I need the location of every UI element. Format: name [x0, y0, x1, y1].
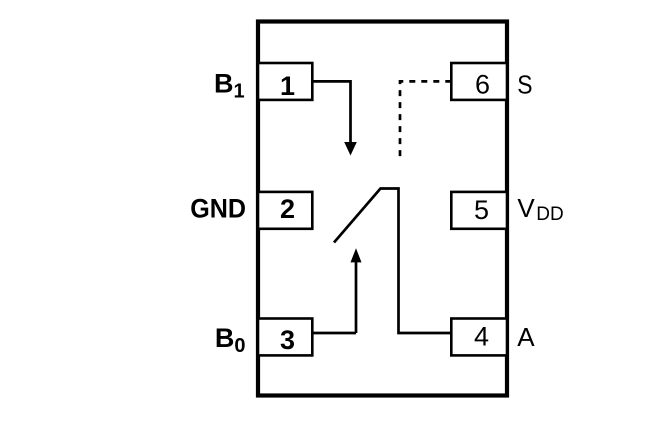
- svg-text:4: 4: [474, 322, 489, 352]
- svg-text:2: 2: [280, 194, 295, 224]
- arrow shaft up (B0 throw): [355, 262, 358, 333]
- svg-text:3: 3: [280, 325, 295, 355]
- svg-text:6: 6: [475, 70, 490, 100]
- svg-text:GND: GND: [190, 193, 246, 224]
- svg-text:B1: B1: [214, 69, 245, 103]
- arrowhead up (B0 throw): [351, 248, 362, 262]
- IC package body: [258, 22, 507, 396]
- svg-text:B0: B0: [215, 323, 246, 357]
- arrowhead down (B1 throw): [344, 142, 357, 156]
- net label S: [517, 71, 532, 100]
- switch lever and common pole wire to pin 4: [334, 189, 451, 334]
- pin 1 box: [258, 63, 312, 100]
- net label GND: [190, 193, 246, 224]
- svg-text:VDD: VDD: [517, 193, 563, 225]
- pin 4 box: [451, 319, 507, 356]
- svg-text:5: 5: [474, 195, 489, 225]
- pin 6 box: [451, 63, 507, 100]
- dashed control line from pin 6 (S): [400, 81, 451, 157]
- svg-text:S: S: [517, 71, 532, 100]
- wire from pin 3: [312, 332, 356, 335]
- svg-text:1: 1: [280, 71, 295, 101]
- pin 5 box: [451, 192, 507, 229]
- pin 3 box: [258, 319, 312, 356]
- pin 2 box: [258, 192, 312, 229]
- svg-text:A: A: [517, 322, 535, 352]
- wire from pin 1 to B1 throw: [312, 81, 350, 143]
